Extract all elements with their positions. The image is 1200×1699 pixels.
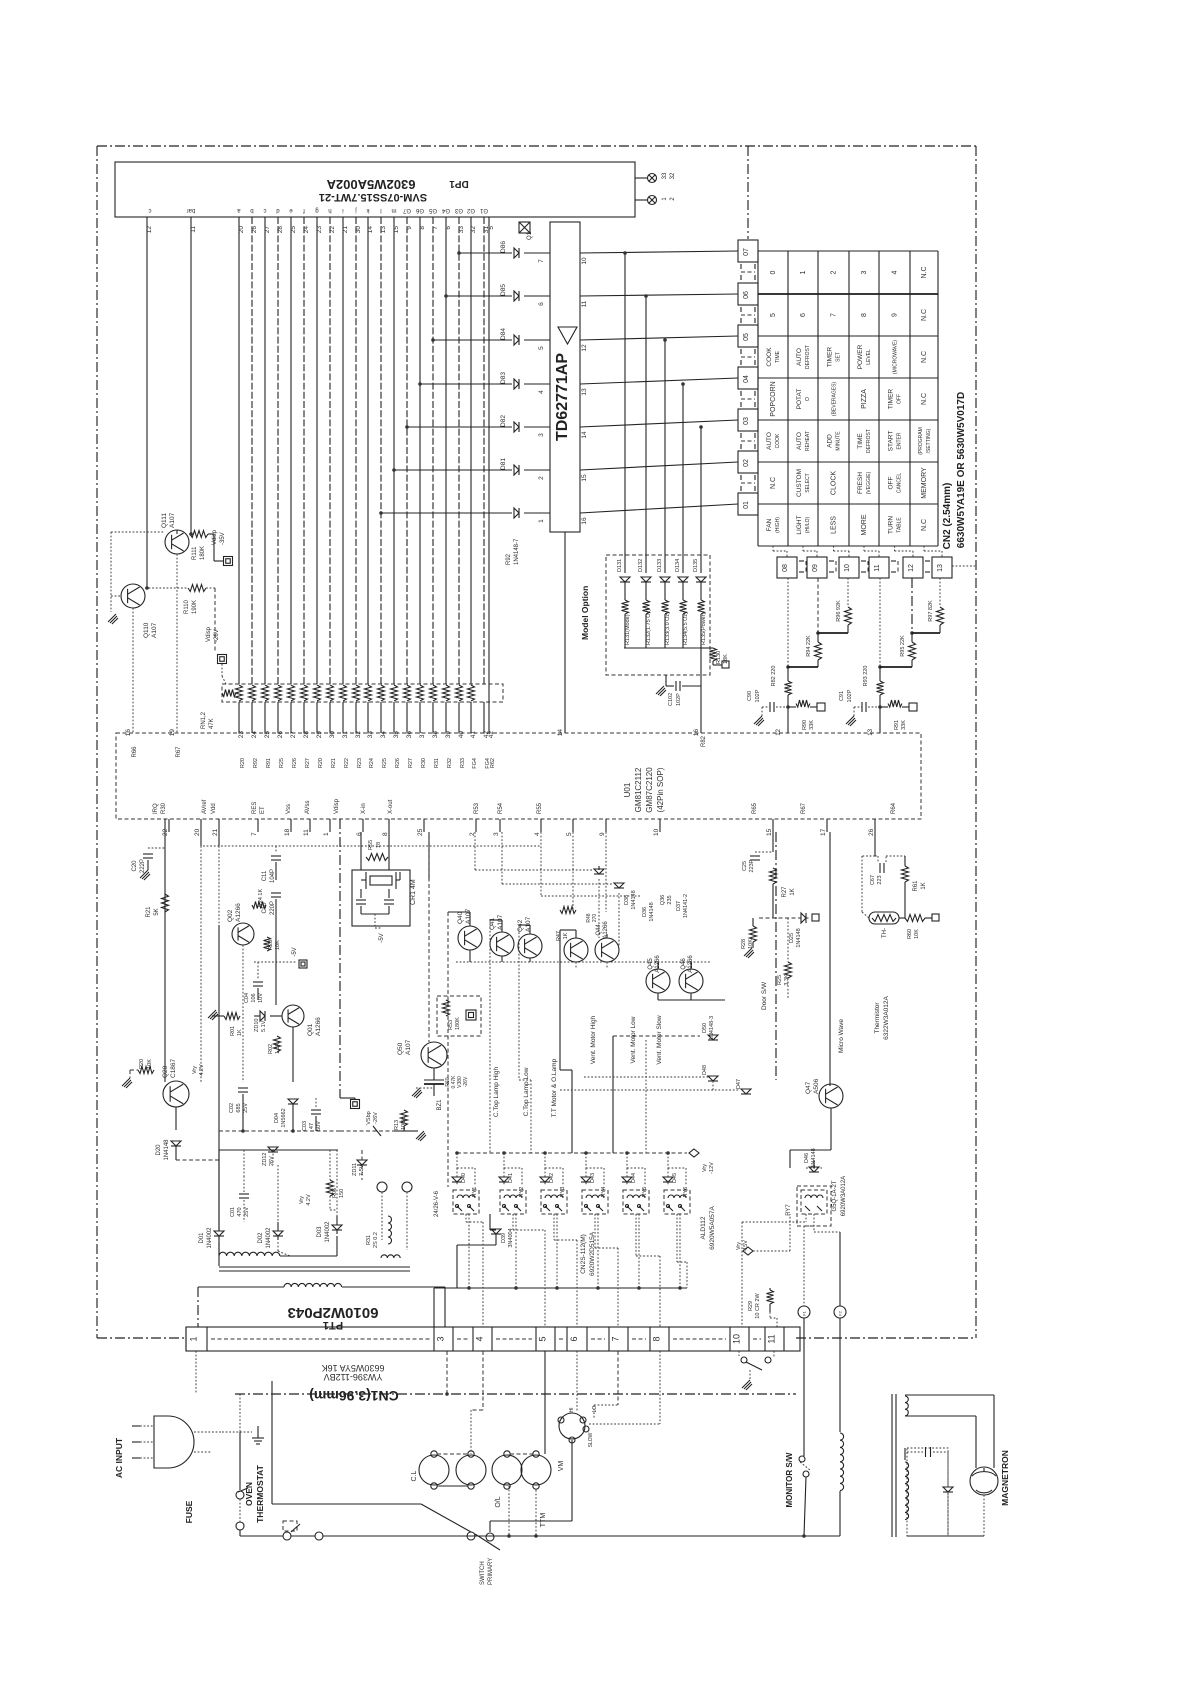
svg-text:ADD: ADD [827, 434, 834, 448]
svg-text:222P: 222P [140, 859, 146, 873]
wire live to fuse [239, 1394, 241, 1490]
fuse circle F1 [798, 1306, 810, 1318]
transistor Q41 A107 [489, 914, 514, 956]
svg-text:18K: 18K [723, 654, 729, 664]
svg-text:TIME: TIME [775, 350, 781, 363]
svg-text:A1266: A1266 [603, 921, 609, 939]
diode D82 segment driver [405, 415, 550, 437]
svg-text:LESS: LESS [831, 516, 838, 534]
svg-text:5: 5 [488, 226, 495, 230]
resistor R132 [643, 582, 653, 648]
svg-text:RY3: RY3 [560, 1187, 566, 1198]
svg-text:TH-: TH- [882, 928, 888, 938]
svg-text:106: 106 [251, 993, 257, 1002]
svg-text:TTM: TTM [540, 1513, 547, 1528]
svg-text:R135(Power): R135(Power) [701, 612, 707, 645]
svg-text:03: 03 [743, 417, 750, 425]
svg-text:CN2S-112(M): CN2S-112(M) [580, 1234, 587, 1274]
key matrix table grid [758, 251, 938, 546]
svg-text:1N4148: 1N4148 [631, 890, 637, 909]
svg-text:12: 12 [908, 564, 915, 572]
svg-text:A1266: A1266 [315, 1017, 322, 1036]
svg-text:Vent. Motor Slow: Vent. Motor Slow [656, 1015, 663, 1064]
svg-text:R31: R31 [434, 758, 440, 768]
svg-text:R47: R47 [556, 931, 562, 941]
svg-text:47: 47 [309, 1123, 315, 1129]
svg-text:D135: D135 [693, 559, 699, 572]
svg-text:223: 223 [877, 875, 883, 884]
svg-text:7: 7 [251, 832, 258, 836]
svg-text:7: 7 [611, 1336, 621, 1341]
diode D133 [657, 559, 670, 582]
svg-text:SVM-07SS15.7WT-21: SVM-07SS15.7WT-21 [319, 191, 427, 203]
svg-text:6920W5A057A: 6920W5A057A [709, 1205, 716, 1249]
svg-text:Vry: Vry [192, 1066, 198, 1074]
svg-text:8: 8 [652, 1336, 662, 1341]
svg-text:R55: R55 [537, 802, 543, 814]
svg-text:07: 07 [743, 248, 750, 256]
svg-text:1K: 1K [921, 882, 927, 889]
svg-text:14: 14 [557, 729, 564, 737]
svg-text:G4: G4 [441, 207, 450, 213]
svg-text:47K: 47K [209, 718, 215, 729]
diode D37 1N4148-2 [541, 832, 689, 918]
transistor Q47 A506 [805, 1078, 843, 1108]
svg-text:220P: 220P [270, 901, 276, 915]
svg-text:SELECT: SELECT [805, 473, 811, 492]
svg-text:R25: R25 [382, 758, 388, 768]
svg-text:25V: 25V [244, 1207, 250, 1217]
svg-text:D86: D86 [500, 241, 507, 253]
svg-text:D36: D36 [642, 907, 648, 917]
svg-text:28: 28 [277, 226, 284, 234]
capacitor C102 102P [656, 675, 701, 706]
svg-text:R28: R28 [741, 939, 747, 949]
capacitor C02 685 25V [229, 1088, 249, 1131]
wire relay rail taps [455, 1151, 670, 1168]
relay RY7 [786, 1176, 847, 1226]
wire DP1 G line to U01 [488, 217, 490, 733]
svg-text:5: 5 [538, 1336, 548, 1341]
svg-text:20: 20 [194, 828, 201, 836]
separator dash-dot CN1 [235, 1393, 796, 1395]
svg-text:4: 4 [538, 390, 545, 394]
svg-text:RES: RES [252, 802, 258, 814]
svg-text:(MICROWAVE): (MICROWAVE) [893, 340, 899, 374]
svg-text:R66: R66 [132, 746, 138, 758]
svg-text:1: 1 [538, 519, 545, 523]
svg-text:C01: C01 [230, 1207, 236, 1217]
oven thermostat switch [240, 1521, 840, 1540]
diode D03 1N4002 [317, 1216, 342, 1243]
svg-text:R64: R64 [891, 802, 897, 814]
svg-text:N.C: N.C [921, 519, 928, 531]
transistor Q20 C1867 [162, 1058, 205, 1107]
svg-text:16: 16 [693, 729, 700, 737]
svg-text:3.3K: 3.3K [784, 974, 790, 986]
svg-text:SLOW: SLOW [588, 1432, 594, 1447]
svg-text:3: 3 [538, 433, 545, 437]
svg-text:3N4004: 3N4004 [508, 1228, 514, 1247]
svg-text:1N4141-2: 1N4141-2 [683, 894, 689, 918]
HV secondary winding [905, 1395, 994, 1468]
svg-text:32: 32 [670, 172, 676, 179]
svg-text:D04: D04 [274, 1113, 280, 1123]
capacitor C04 106 10V [244, 982, 264, 1003]
transformer T01 primary winding [198, 1283, 445, 1327]
svg-text:D46: D46 [804, 1153, 810, 1163]
svg-text:R25: R25 [279, 758, 285, 768]
svg-text:TIME: TIME [857, 433, 864, 449]
svg-text:DEFROST: DEFROST [866, 429, 872, 453]
svg-text:CN1(3.96mm): CN1(3.96mm) [309, 1388, 398, 1404]
svg-text:D132: D132 [638, 559, 644, 572]
svg-text:Q42: Q42 [517, 919, 524, 932]
crystal CR1 4M block [352, 832, 417, 926]
svg-text:235: 235 [667, 895, 673, 904]
Model Option block [580, 555, 710, 675]
svg-text:1K: 1K [563, 932, 569, 939]
svg-text:A107: A107 [151, 622, 158, 638]
svg-text:10: 10 [581, 257, 588, 265]
svg-text:6322W3A012A: 6322W3A012A [883, 995, 890, 1039]
svg-text:102P: 102P [755, 689, 761, 702]
resistor R96 92K [818, 578, 852, 633]
svg-text:Vdisp: Vdisp [334, 798, 340, 814]
svg-text:R20: R20 [139, 1059, 145, 1069]
svg-text:26V: 26V [269, 1156, 275, 1166]
capacitor C10 220P [262, 893, 281, 915]
wire supply horizontal 1150 [219, 1149, 338, 1151]
svg-text:R27: R27 [782, 886, 788, 898]
transistor Q01 A1266 [282, 1005, 322, 1036]
svg-text:j: j [355, 207, 357, 213]
svg-text:A506: A506 [813, 1078, 820, 1094]
svg-text:A1266: A1266 [235, 903, 242, 922]
supply Vdisp -35V upper [208, 529, 233, 565]
svg-text:l: l [380, 207, 381, 213]
relay RY4 coil [582, 1190, 608, 1214]
svg-text:(42Pin SOP): (42Pin SOP) [656, 767, 665, 812]
svg-text:F1: F1 [802, 1310, 807, 1315]
connector strip KEY rows 07-01 [738, 240, 758, 280]
capacitor C90 102P [747, 689, 788, 726]
svg-text:(HI/LO): (HI/LO) [805, 516, 811, 533]
capacitor C20 222P [132, 819, 165, 1082]
svg-text:6: 6 [538, 302, 545, 306]
svg-text:6920W3A012A: 6920W3A012A [841, 1176, 847, 1216]
svg-text:102P: 102P [676, 693, 682, 706]
supply VSbp -26V [340, 819, 379, 1125]
wire pins 20 21 nets [201, 832, 540, 1082]
resistor R28 10K [741, 918, 757, 958]
svg-text:R60: R60 [907, 929, 913, 939]
svg-text:18: 18 [284, 828, 291, 836]
svg-text:O/L: O/L [495, 1496, 502, 1507]
wire relay outputs to PT1 [466, 1214, 687, 1327]
border frame dash-dot [97, 145, 976, 147]
svg-text:R92: R92 [253, 758, 259, 768]
diode D04 1N5662 [274, 1099, 298, 1131]
resistor R25 3.3K [777, 918, 792, 998]
svg-text:R132(1.75 Oz): R132(1.75 Oz) [646, 609, 652, 645]
svg-text:RY2: RY2 [519, 1187, 525, 1198]
thermistor TH [862, 856, 905, 938]
IC U01 GM81C2112 microcontroller [116, 733, 921, 819]
svg-text:D50: D50 [702, 1023, 708, 1033]
svg-text:SET: SET [836, 352, 842, 362]
wire RY7 to PT1 pins 10 11 [742, 1214, 806, 1327]
magnetron tube [970, 1467, 998, 1495]
diode D44 [626, 1168, 628, 1185]
svg-text:R27: R27 [305, 758, 311, 768]
U01 bottom pin labels [153, 798, 897, 814]
DP1 filament pin circles [635, 177, 648, 179]
svg-text:R30: R30 [161, 802, 167, 814]
svg-text:50V: 50V [316, 1121, 322, 1131]
relay RY2 coil [500, 1190, 526, 1214]
HV transformer core [891, 1394, 893, 1537]
svg-text:HI: HI [569, 1408, 575, 1413]
svg-text:R67: R67 [801, 802, 807, 814]
svg-text:R94 22K: R94 22K [806, 635, 812, 657]
svg-text:8: 8 [419, 226, 426, 230]
diode D20 1N4148 [156, 1107, 181, 1161]
svg-text:26: 26 [251, 226, 258, 234]
svg-text:R130: R130 [716, 651, 722, 664]
svg-text:D131: D131 [617, 559, 623, 572]
svg-text:37: 37 [419, 731, 426, 739]
svg-text:1: 1 [189, 1336, 199, 1341]
svg-text:GM81C2112: GM81C2112 [634, 767, 643, 812]
svg-text:RY6: RY6 [683, 1187, 689, 1198]
svg-text:R29: R29 [748, 1301, 754, 1311]
svg-text:20: 20 [238, 226, 245, 234]
svg-text:1: 1 [323, 832, 330, 836]
svg-text:R90: R90 [802, 720, 808, 730]
svg-text:10K: 10K [914, 929, 920, 939]
svg-text:Q02: Q02 [227, 909, 234, 922]
svg-text:g: g [315, 207, 318, 213]
wire bottom rail junctions [507, 1486, 806, 1538]
svg-text:24: 24 [251, 731, 258, 739]
transistor Q111 A107 [161, 512, 189, 554]
svg-text:T.T Motor & O.Lamp: T.T Motor & O.Lamp [551, 1058, 558, 1117]
resistor R95 22K [880, 578, 916, 667]
svg-text:C.L: C.L [411, 1470, 418, 1481]
wire driver outputs to key matrix [580, 251, 738, 573]
svg-text:32: 32 [470, 226, 477, 234]
svg-text:1N4148-7: 1N4148-7 [514, 538, 520, 565]
resistor R27 1K [770, 868, 797, 918]
svg-text:D45: D45 [672, 1173, 678, 1183]
svg-text:33K: 33K [809, 720, 815, 730]
svg-text:VM: VM [558, 1461, 565, 1472]
svg-text:33: 33 [662, 172, 668, 179]
wire PT1 pin4 to CL [471, 1351, 483, 1454]
svg-text:30: 30 [329, 731, 336, 739]
svg-text:34: 34 [380, 731, 387, 739]
svg-text:AC INPUT: AC INPUT [114, 1437, 124, 1478]
svg-text:A107: A107 [405, 1039, 412, 1055]
svg-text:LEVEL: LEVEL [866, 349, 872, 365]
transistor Q42 A107 [517, 916, 542, 958]
monitor switch [799, 1318, 810, 1536]
svg-text:AUTO: AUTO [796, 348, 803, 366]
diode D85 segment driver [444, 284, 550, 306]
svg-text:R134(5.5 Oz): R134(5.5 Oz) [683, 612, 689, 645]
wire PT1 pin5 to TTM [536, 1351, 545, 1536]
wire key column 08 to U01 pin 12 [786, 578, 790, 681]
svg-text:OFF: OFF [897, 394, 903, 404]
svg-text:N.C: N.C [921, 266, 928, 278]
svg-text:Door S/W: Door S/W [761, 981, 768, 1010]
svg-text:28: 28 [303, 731, 310, 739]
relay RY1 coil [453, 1190, 479, 1214]
resistor R23 10K [264, 937, 282, 951]
svg-text:G1: G1 [479, 207, 488, 213]
transistor Q40 A107 [457, 908, 482, 950]
svg-text:R20: R20 [318, 758, 324, 768]
svg-text:21: 21 [212, 828, 219, 836]
svg-text:-26V: -26V [214, 629, 220, 642]
svg-text:A107: A107 [497, 914, 504, 930]
svg-text:4: 4 [534, 832, 541, 836]
diode driver input 1 [379, 508, 550, 523]
svg-text:X-out: X-out [388, 799, 394, 814]
svg-text:R54: R54 [498, 802, 504, 814]
svg-text:C67: C67 [870, 875, 876, 885]
svg-text:41: 41 [470, 731, 477, 739]
svg-text:25: 25 [264, 731, 271, 739]
svg-text:POTAT: POTAT [796, 389, 803, 410]
svg-text:C02: C02 [229, 1103, 235, 1113]
svg-text:12: 12 [776, 728, 782, 735]
transistor Q46 A1266 [679, 955, 703, 993]
svg-text:R97 82K: R97 82K [928, 600, 934, 622]
svg-text:-35V: -35V [220, 532, 226, 545]
svg-text:R26: R26 [292, 758, 298, 768]
label Vry -15V [736, 1214, 790, 1255]
svg-text:6920W2D515A: 6920W2D515A [589, 1231, 596, 1276]
resistor R97 82K [912, 578, 944, 633]
svg-text:223P: 223P [749, 859, 755, 872]
svg-text:7.5V: 7.5V [359, 1164, 365, 1176]
svg-text:26: 26 [868, 828, 875, 836]
svg-text:3: 3 [436, 1336, 446, 1341]
svg-text:C102: C102 [668, 693, 674, 706]
svg-text:-26V: -26V [373, 1112, 379, 1124]
resistor R55 18 [366, 840, 388, 861]
svg-text:MORE: MORE [861, 514, 868, 535]
svg-text:FUSE: FUSE [184, 1500, 194, 1523]
svg-text:7: 7 [831, 313, 838, 317]
svg-text:8: 8 [382, 832, 389, 836]
zener ZD12 26V [262, 1147, 278, 1166]
svg-text:R02: R02 [268, 1044, 274, 1054]
primary coil to F2 [840, 1318, 844, 1536]
svg-text:470: 470 [237, 1207, 243, 1216]
svg-text:6: 6 [356, 832, 363, 836]
svg-text:RN1,2: RN1,2 [201, 711, 207, 729]
svg-text:10: 10 [844, 564, 851, 572]
svg-text:16: 16 [125, 729, 132, 737]
svg-text:7: 7 [538, 259, 545, 263]
svg-text:Q50: Q50 [397, 1042, 404, 1055]
svg-text:h: h [328, 207, 331, 213]
wire RY7 to monitor [804, 1214, 840, 1306]
svg-text:C1867: C1867 [170, 1058, 177, 1078]
svg-text:C11: C11 [262, 870, 268, 881]
svg-text:D03: D03 [317, 1226, 323, 1238]
svg-text:Q01: Q01 [307, 1023, 314, 1036]
diode D02 1N4002 [258, 1222, 283, 1249]
svg-text:Vry: Vry [299, 1196, 305, 1204]
svg-text:G6: G6 [415, 207, 424, 213]
svg-text:27: 27 [290, 731, 297, 739]
svg-text:2: 2 [831, 270, 838, 274]
diode D132 [638, 559, 651, 582]
diode D41 [503, 1168, 505, 1185]
svg-text:C04: C04 [244, 993, 250, 1003]
svg-text:R21: R21 [146, 906, 152, 918]
svg-text:21: 21 [342, 226, 349, 234]
svg-text:C.Top Lamp Low: C.Top Lamp Low [523, 1067, 530, 1116]
diode D84 segment driver [431, 328, 550, 350]
svg-text:09: 09 [812, 564, 819, 572]
svg-text:D20: D20 [156, 1144, 162, 1156]
svg-text:R82: R82 [701, 735, 707, 747]
svg-text:R32: R32 [447, 758, 453, 768]
wire key column 11 to U01 pin 13 [878, 578, 882, 681]
svg-text:RY5: RY5 [642, 1187, 648, 1198]
svg-text:R27: R27 [408, 758, 414, 768]
svg-text:D48: D48 [702, 1065, 708, 1075]
svg-text:6: 6 [800, 313, 807, 317]
svg-text:33K: 33K [901, 720, 907, 730]
connector strip KEY columns 08-13 [777, 557, 806, 578]
svg-text:10V: 10V [258, 993, 264, 1003]
transistor Q110 A107 [121, 584, 158, 638]
svg-text:16: 16 [581, 517, 588, 525]
svg-text:01: 01 [743, 501, 750, 509]
svg-text:(PROGRAM: (PROGRAM [918, 427, 924, 455]
resistor R91 33K [878, 700, 917, 730]
svg-text:Vry: Vry [736, 1242, 742, 1250]
svg-text:D133: D133 [657, 559, 663, 572]
svg-text:Vent. Motor High: Vent. Motor High [590, 1015, 597, 1064]
svg-text:Vdisp: Vdisp [206, 626, 212, 642]
svg-text:06: 06 [743, 291, 750, 299]
diode D47 [560, 1079, 751, 1094]
wire output transistor bases [456, 832, 725, 1000]
resistor R133 [662, 582, 672, 648]
svg-text:TIMER: TIMER [827, 347, 834, 368]
svg-text:R33: R33 [460, 758, 466, 768]
svg-text:OVEN: OVEN [244, 1482, 254, 1506]
svg-text:1N4148: 1N4148 [164, 1139, 170, 1161]
svg-text:33: 33 [367, 731, 374, 739]
svg-text:11: 11 [874, 564, 881, 571]
svg-text:08: 08 [782, 564, 789, 572]
component Q1 top of driver [519, 222, 533, 240]
svg-text:42: 42 [488, 731, 495, 739]
svg-text:14: 14 [367, 226, 374, 234]
wire relay commons bottom rail [434, 1214, 687, 1327]
svg-text:12: 12 [581, 344, 588, 352]
connector PT1 strip [186, 1327, 800, 1351]
svg-text:G7: G7 [402, 207, 411, 213]
